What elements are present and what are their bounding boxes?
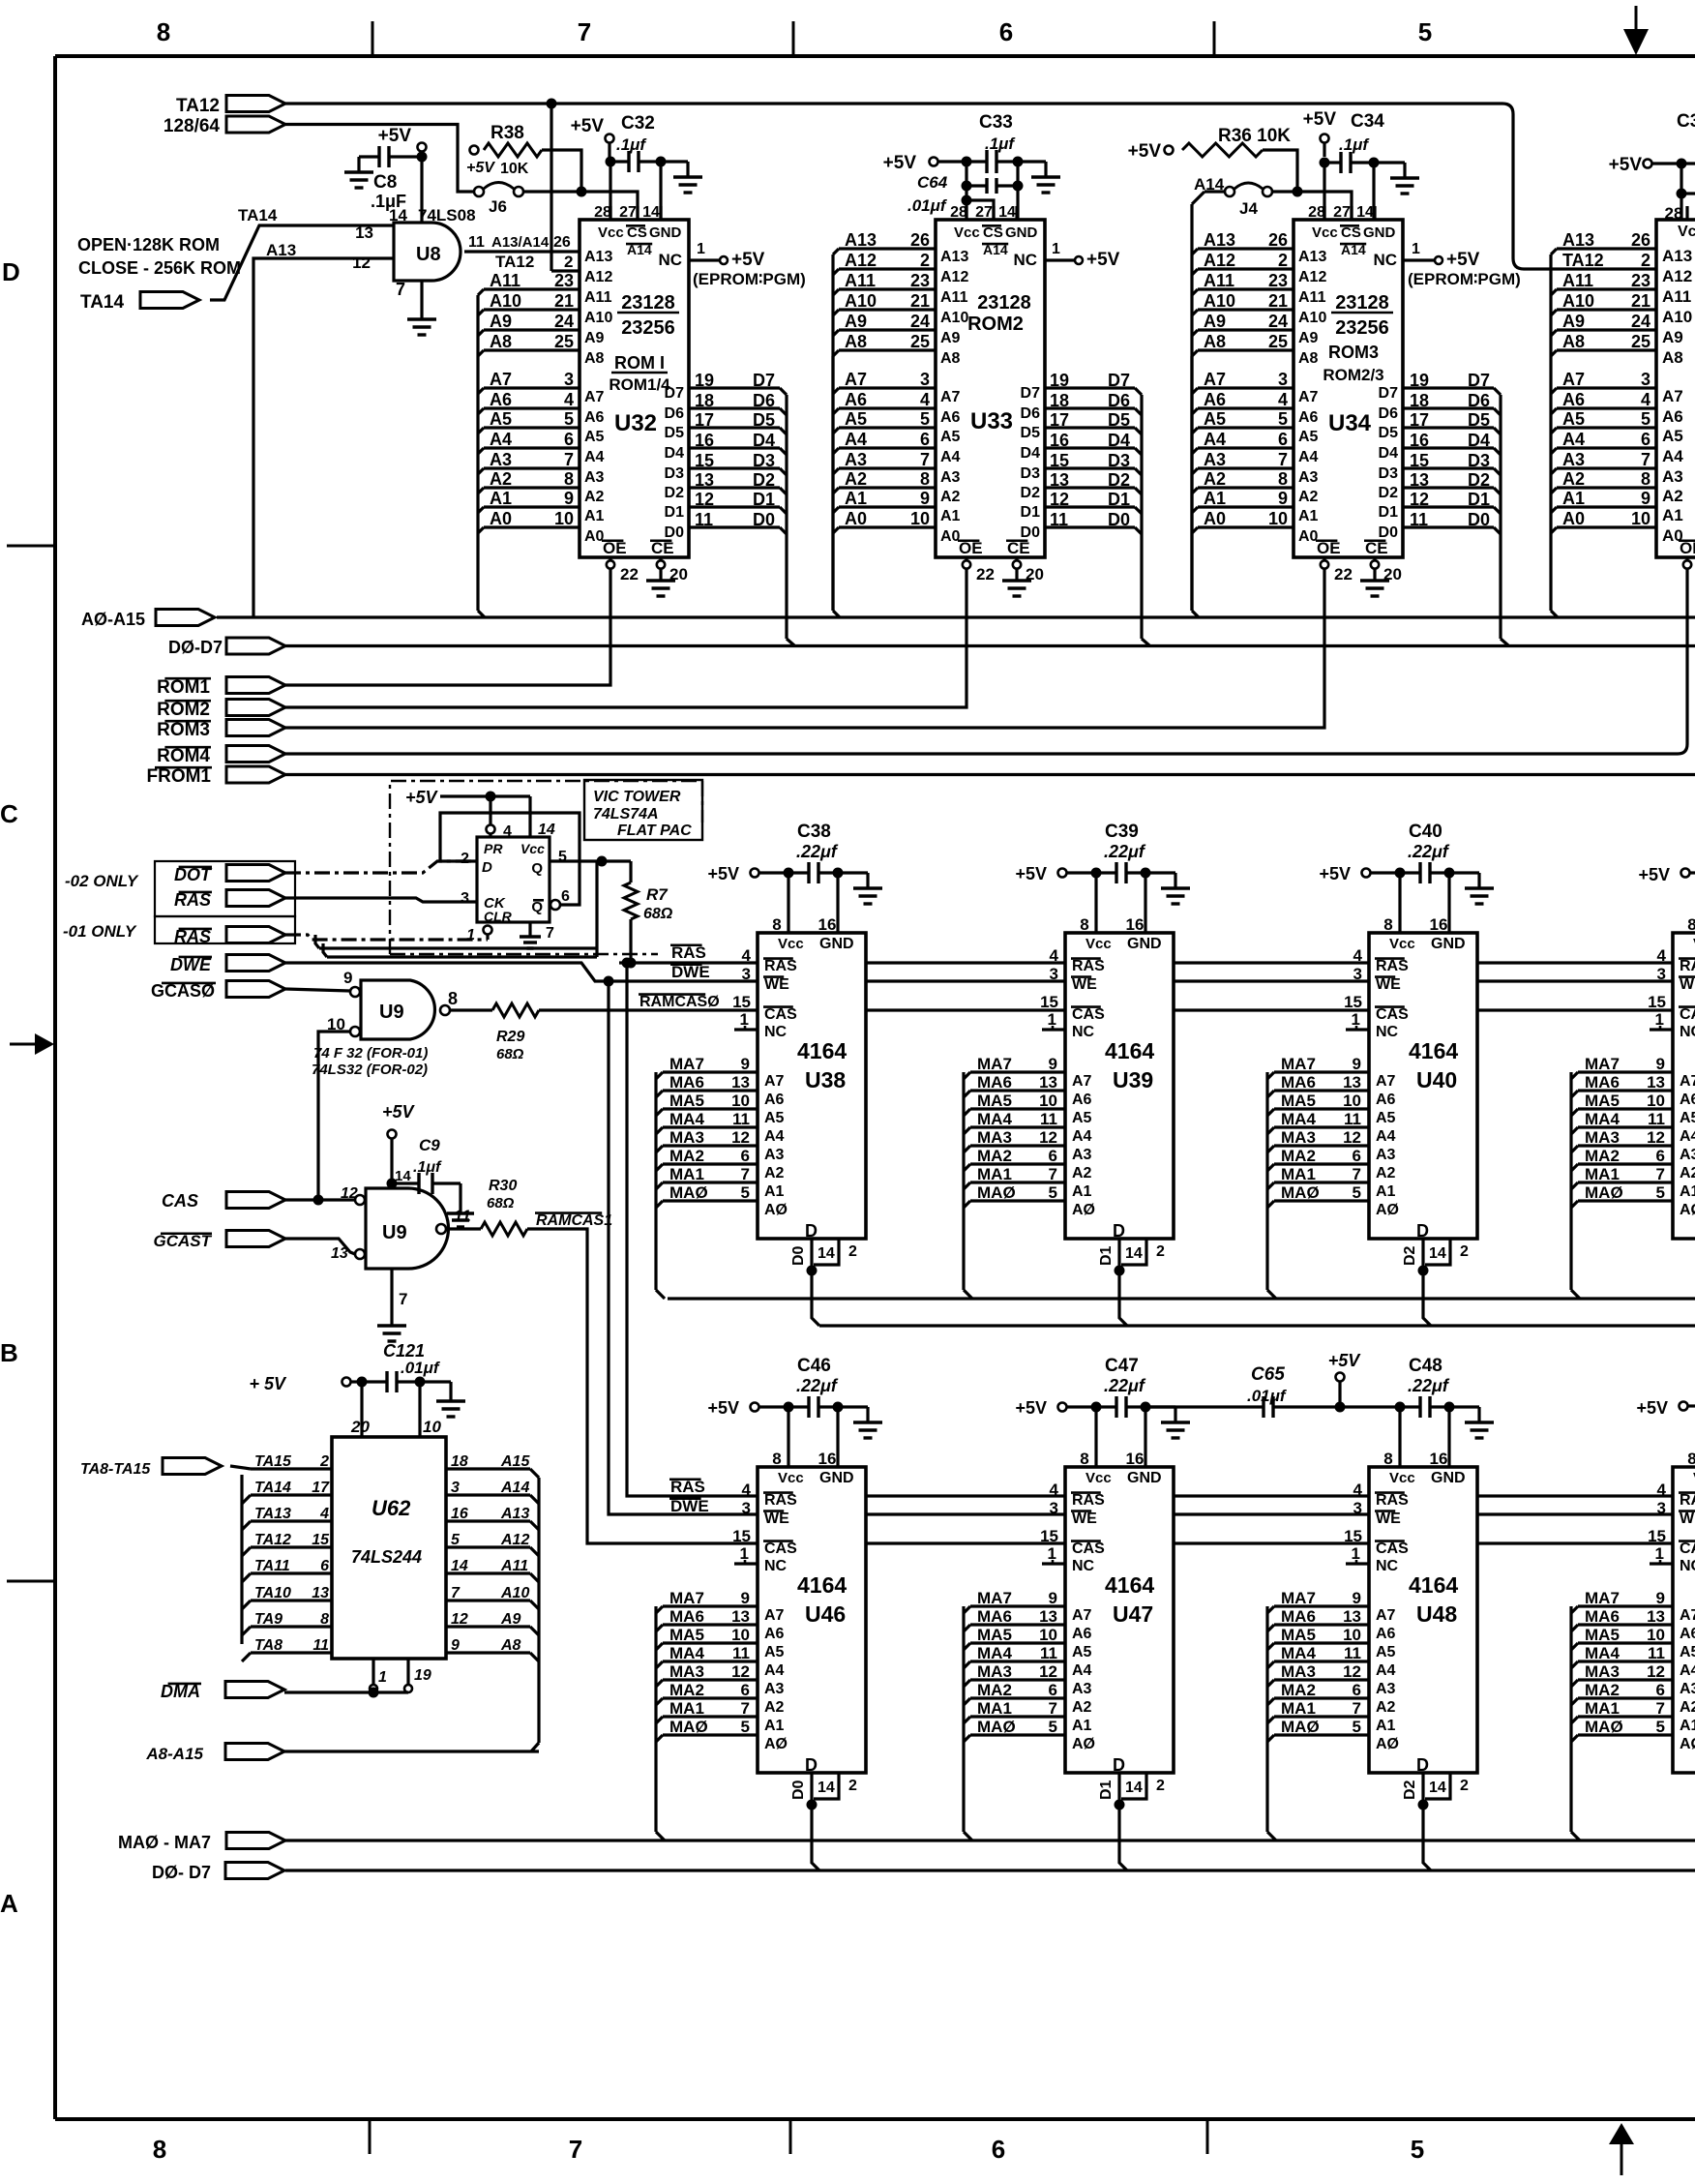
bus arrow A8-A15	[145, 1744, 284, 1764]
svg-text:10: 10	[423, 1418, 441, 1436]
svg-text:Vcc: Vcc	[1389, 1470, 1415, 1486]
svg-text:MAØ: MAØ	[1281, 1183, 1320, 1202]
wire bundle under flip-flop	[315, 861, 597, 957]
svg-text:GND: GND	[819, 1470, 854, 1486]
svg-text:WE: WE	[1376, 1511, 1401, 1527]
svg-text:GND: GND	[819, 936, 854, 952]
svg-text:D0: D0	[790, 1780, 807, 1800]
junction dot C8/U8 Vcc	[417, 152, 428, 163]
svg-text:23256: 23256	[1335, 317, 1389, 339]
svg-text:27: 27	[1333, 204, 1351, 221]
svg-text:D5: D5	[1108, 410, 1130, 430]
svg-text:A11: A11	[584, 289, 612, 306]
svg-text:6: 6	[564, 430, 574, 449]
svg-text:D3: D3	[1468, 451, 1490, 470]
bus arrow RAS (-01)	[174, 927, 285, 947]
wire C34 to U34 pins 28/14	[1324, 163, 1374, 220]
capacitor C32 .1uf block	[571, 113, 702, 193]
svg-text:8: 8	[1687, 1450, 1695, 1468]
svg-text:MA4: MA4	[1281, 1110, 1316, 1128]
svg-text:U48: U48	[1416, 1601, 1457, 1627]
svg-text:11: 11	[1040, 1110, 1057, 1128]
svg-text:4164: 4164	[797, 1038, 847, 1063]
U41 control pin numbers	[1648, 946, 1673, 1030]
svg-text:C48: C48	[1409, 1356, 1442, 1376]
svg-text:A0: A0	[490, 509, 512, 528]
svg-text:A7: A7	[1376, 1073, 1396, 1090]
svg-text:CAS: CAS	[764, 1541, 797, 1557]
svg-text:D2: D2	[753, 470, 775, 490]
svg-text:D: D	[1416, 1755, 1429, 1775]
wire TA12 to U35 pin2 (corner route)	[1502, 104, 1524, 269]
bus arrow FROM1	[147, 766, 286, 787]
svg-text:MA5: MA5	[1585, 1092, 1620, 1110]
svg-text:7: 7	[546, 925, 554, 942]
svg-text:A4: A4	[1662, 447, 1683, 465]
svg-text:A6: A6	[1680, 1626, 1695, 1642]
svg-text:24: 24	[1631, 312, 1650, 331]
svg-text:12: 12	[1410, 490, 1429, 509]
svg-text:13: 13	[1039, 1073, 1057, 1092]
svg-text:15: 15	[312, 1532, 330, 1548]
svg-text:A9: A9	[1662, 328, 1683, 346]
svg-text:5: 5	[1418, 17, 1432, 46]
U48 control pin numbers	[1344, 1481, 1369, 1564]
capacitor C38 .22uf for U38	[707, 822, 882, 919]
svg-text:OPEN·128K ROM: OPEN·128K ROM	[77, 235, 220, 254]
svg-text:A6: A6	[1072, 1626, 1092, 1642]
wire A8-A15 to U62 staircase	[284, 1750, 539, 1752]
svg-text:A8: A8	[1562, 332, 1585, 351]
svg-text:4164: 4164	[1409, 1038, 1458, 1063]
wire D bus row 1	[819, 1324, 1695, 1327]
U34 address staircase A13-A8	[1192, 230, 1294, 617]
svg-text:C121: C121	[383, 1341, 425, 1361]
svg-text:MA7: MA7	[977, 1055, 1012, 1073]
svg-text:MA1: MA1	[1585, 1699, 1620, 1718]
svg-text:MA3: MA3	[1585, 1662, 1620, 1681]
svg-text:MA6: MA6	[977, 1073, 1012, 1092]
svg-text:U47: U47	[1113, 1601, 1153, 1627]
U41 MA address staircase	[1571, 1055, 1673, 1299]
svg-text:-01 ONLY: -01 ONLY	[63, 922, 137, 941]
svg-text:7: 7	[1049, 1165, 1057, 1183]
svg-text:A2: A2	[1680, 1165, 1695, 1182]
svg-text:D6: D6	[1468, 391, 1490, 410]
DRAM U46 4164	[758, 1450, 866, 1775]
svg-text:A1: A1	[1072, 1183, 1092, 1200]
svg-text:6: 6	[920, 430, 930, 449]
svg-text:15: 15	[732, 993, 751, 1011]
svg-text:D7: D7	[1379, 385, 1399, 402]
svg-text:RAMCAS1: RAMCAS1	[536, 1212, 612, 1229]
svg-text:12: 12	[1343, 1128, 1361, 1147]
svg-text:A6: A6	[1376, 1092, 1396, 1108]
svg-text:CLR: CLR	[484, 909, 513, 924]
svg-text:CAS: CAS	[1072, 1541, 1105, 1557]
svg-text:8: 8	[1641, 469, 1650, 489]
svg-text:ROM1/4: ROM1/4	[609, 375, 670, 394]
svg-text:A3: A3	[1072, 1681, 1092, 1697]
svg-text:A8: A8	[500, 1637, 521, 1654]
svg-text:A12: A12	[500, 1532, 529, 1548]
svg-text:A5: A5	[1204, 409, 1226, 429]
svg-text:8: 8	[1383, 915, 1392, 934]
capacitor C33 .1uf / C64 .01uf block	[883, 112, 1060, 220]
svg-text:17: 17	[1410, 410, 1429, 430]
svg-text:2: 2	[1460, 1243, 1469, 1260]
wire ROM2 to U33 OE	[285, 569, 966, 707]
svg-text:A9: A9	[1562, 312, 1585, 331]
svg-text:RAS: RAS	[1376, 1492, 1409, 1509]
resistor R29 68ohm	[450, 1003, 539, 1062]
svg-text:14: 14	[395, 1168, 411, 1184]
svg-text:D1: D1	[1098, 1780, 1115, 1800]
svg-text:12: 12	[1039, 1128, 1057, 1147]
svg-text:8: 8	[153, 2135, 166, 2164]
svg-text:4164: 4164	[797, 1572, 847, 1598]
svg-text:23: 23	[1631, 271, 1650, 290]
svg-text:5: 5	[741, 1183, 750, 1202]
svg-text:A5: A5	[1562, 409, 1585, 429]
svg-text:MA5: MA5	[1281, 1626, 1316, 1644]
U34 data staircase D7-D0	[1404, 371, 1508, 645]
svg-text:MAØ: MAØ	[669, 1183, 708, 1202]
svg-text:A2: A2	[490, 469, 512, 489]
svg-text:A10: A10	[584, 310, 612, 326]
svg-text:16: 16	[818, 915, 837, 934]
svg-text:TA12: TA12	[1562, 251, 1604, 270]
svg-text:3: 3	[564, 370, 574, 389]
svg-text:+5V: +5V	[1303, 109, 1337, 130]
svg-text:68Ω: 68Ω	[496, 1046, 524, 1062]
svg-text:MA6: MA6	[1585, 1073, 1620, 1092]
svg-text:A5: A5	[1376, 1644, 1396, 1660]
svg-text:A6: A6	[490, 390, 512, 409]
svg-text:D6: D6	[753, 391, 775, 410]
U34 address staircase A7-A0	[1192, 370, 1294, 533]
svg-text:NC: NC	[764, 1558, 788, 1574]
svg-text:23128: 23128	[621, 292, 675, 314]
svg-text:A3: A3	[764, 1147, 785, 1163]
svg-text:8: 8	[920, 469, 930, 489]
svg-text:A9: A9	[500, 1611, 521, 1628]
svg-text:6: 6	[741, 1681, 750, 1699]
svg-text:15: 15	[1040, 993, 1058, 1011]
svg-text:RAS: RAS	[1072, 958, 1105, 974]
svg-text:+5V: +5V	[1328, 1351, 1362, 1370]
svg-text:15: 15	[1050, 451, 1069, 470]
svg-text:21: 21	[910, 291, 930, 311]
svg-text:D7: D7	[753, 371, 775, 390]
bus arrow D0-D7	[168, 638, 285, 657]
bus arrow ROM3	[157, 720, 285, 741]
svg-text:A6: A6	[764, 1092, 785, 1108]
bus arrow MA0-MA7	[118, 1833, 285, 1853]
svg-text:MA4: MA4	[977, 1644, 1012, 1662]
svg-text:D: D	[482, 859, 492, 876]
svg-text:14: 14	[1429, 1245, 1446, 1262]
svg-text:MA5: MA5	[669, 1626, 704, 1644]
capacitor C8 .1uF	[344, 146, 417, 211]
flip-flop Q-bar feedback wire	[440, 813, 580, 905]
svg-text:VIC TOWER: VIC TOWER	[593, 789, 681, 805]
flip-flop U-tower 74LS74A	[461, 822, 570, 943]
svg-text:23: 23	[910, 271, 930, 290]
svg-text:A0: A0	[845, 509, 867, 528]
svg-text:D1: D1	[1021, 504, 1041, 521]
wire ROM3 to U34 OE	[285, 569, 1324, 728]
svg-text:MA2: MA2	[1281, 1681, 1316, 1699]
svg-text:A2: A2	[940, 489, 961, 505]
svg-text:23128: 23128	[1335, 292, 1389, 314]
bus arrow TA12	[176, 96, 285, 117]
svg-text:11: 11	[468, 234, 485, 251]
svg-text:A3: A3	[1376, 1147, 1396, 1163]
DRAM U48 4164	[1369, 1450, 1477, 1775]
svg-text:NC: NC	[1680, 1024, 1695, 1040]
svg-text:6: 6	[1656, 1147, 1665, 1165]
svg-text:A4: A4	[490, 430, 512, 449]
svg-text:U39: U39	[1113, 1067, 1153, 1092]
svg-text:MA4: MA4	[669, 1110, 704, 1128]
svg-text:A15: A15	[500, 1453, 530, 1470]
svg-text:A13: A13	[1298, 249, 1326, 265]
U38 MA address staircase	[656, 1055, 758, 1299]
svg-text:A3: A3	[940, 469, 961, 486]
svg-text:2: 2	[1278, 251, 1288, 270]
svg-text:A2: A2	[1562, 469, 1585, 489]
svg-text:5: 5	[1353, 1718, 1361, 1736]
svg-text:5: 5	[1656, 1718, 1665, 1736]
svg-text:28: 28	[1308, 204, 1325, 221]
svg-text:CAS: CAS	[1376, 1541, 1409, 1557]
resistor R38 10K	[466, 123, 581, 187]
svg-text:MA2: MA2	[977, 1147, 1012, 1165]
svg-text:D5: D5	[753, 410, 775, 430]
svg-text:7: 7	[1656, 1165, 1665, 1183]
svg-text:9: 9	[1353, 1055, 1361, 1073]
svg-text:5: 5	[1049, 1718, 1057, 1736]
U62 bottom pins 1/19	[370, 1659, 431, 1692]
bus arrow CAS	[162, 1191, 285, 1211]
svg-text:A7: A7	[1072, 1073, 1092, 1090]
svg-text:8: 8	[448, 989, 458, 1008]
svg-text:20: 20	[350, 1418, 370, 1436]
svg-text:.01μf: .01μf	[401, 1359, 441, 1377]
svg-text:6: 6	[1049, 1147, 1057, 1165]
svg-text:MAØ: MAØ	[1281, 1718, 1320, 1736]
svg-text:R7: R7	[646, 885, 669, 904]
svg-text:MA1: MA1	[1281, 1699, 1316, 1718]
svg-text:AØ: AØ	[1072, 1202, 1095, 1218]
svg-text:74 F 32 (FOR-01): 74 F 32 (FOR-01)	[313, 1045, 428, 1062]
svg-text:A: A	[0, 1889, 18, 1918]
bus arrow GCAST	[154, 1231, 286, 1251]
svg-text:MA1: MA1	[669, 1699, 704, 1718]
svg-text:9: 9	[1353, 1589, 1361, 1607]
svg-text:D5: D5	[665, 425, 685, 441]
svg-text:D6: D6	[1108, 391, 1130, 410]
wire GCAST to U9b pin 13	[285, 1239, 355, 1254]
svg-text:128/64: 128/64	[164, 116, 221, 136]
svg-text:A3: A3	[1298, 469, 1319, 486]
wire GCAS0 to U9a pin 9	[285, 989, 350, 991]
svg-text:D4: D4	[1108, 431, 1130, 450]
svg-text:TA15: TA15	[254, 1453, 292, 1470]
svg-text:13: 13	[1050, 470, 1069, 490]
svg-text:+5V: +5V	[707, 1398, 739, 1418]
svg-text:A13: A13	[1662, 247, 1692, 265]
svg-text:A8: A8	[584, 350, 605, 367]
svg-text:Vcc: Vcc	[1678, 224, 1695, 240]
svg-text:D3: D3	[1108, 451, 1130, 470]
svg-text:A1: A1	[1204, 489, 1226, 508]
wire J6 to U32 CS pin 27	[523, 192, 638, 220]
svg-text:A0: A0	[1298, 528, 1319, 545]
U47 MA address staircase	[964, 1589, 1065, 1840]
svg-text:MAØ: MAØ	[669, 1718, 708, 1736]
svg-text:13: 13	[695, 470, 714, 490]
svg-text:74LS74A: 74LS74A	[593, 806, 659, 823]
svg-text:MA5: MA5	[977, 1092, 1012, 1110]
svg-text:FROM1: FROM1	[147, 766, 212, 787]
junction dot R7 bottom	[626, 958, 637, 969]
svg-text:19: 19	[1050, 371, 1069, 390]
svg-text:.1μf: .1μf	[985, 135, 1016, 153]
svg-text:A7: A7	[490, 370, 512, 389]
svg-text:A6: A6	[1072, 1092, 1092, 1108]
svg-text:.22μf: .22μf	[1408, 1376, 1450, 1395]
svg-text:A12: A12	[1662, 267, 1692, 285]
wire RAS to row 2	[627, 963, 758, 1496]
svg-text:17: 17	[312, 1480, 330, 1496]
svg-text:21: 21	[1631, 291, 1650, 311]
svg-text:A10: A10	[1562, 291, 1594, 311]
svg-text:CAS: CAS	[1072, 1006, 1105, 1023]
svg-text:14: 14	[818, 1780, 835, 1796]
svg-text:A11: A11	[1204, 271, 1234, 290]
svg-text:.22μf: .22μf	[796, 1376, 839, 1395]
wire RAS(-01) dash-dot	[285, 935, 488, 940]
svg-text:Vcc: Vcc	[1085, 936, 1112, 952]
svg-text:9: 9	[741, 1055, 750, 1073]
svg-text:MA3: MA3	[1585, 1128, 1620, 1147]
svg-text:14: 14	[1429, 1780, 1446, 1796]
svg-text:26: 26	[910, 230, 930, 250]
svg-text:10: 10	[1268, 509, 1288, 528]
svg-text:A4: A4	[1562, 430, 1585, 449]
resistor R7 68ohm	[624, 861, 673, 964]
svg-text:A5: A5	[1680, 1644, 1695, 1660]
svg-text:WE: WE	[1072, 1511, 1097, 1527]
svg-text:16: 16	[451, 1506, 468, 1522]
svg-text:8: 8	[1080, 915, 1088, 934]
svg-text:9: 9	[1641, 489, 1650, 508]
svg-text:15: 15	[1648, 993, 1666, 1011]
svg-text:9: 9	[1656, 1589, 1665, 1607]
svg-text:MA3: MA3	[977, 1128, 1012, 1147]
svg-text:10: 10	[1343, 1092, 1361, 1110]
svg-text:A10: A10	[1298, 310, 1326, 326]
svg-text:GND: GND	[1431, 936, 1466, 952]
svg-text:19: 19	[695, 371, 714, 390]
svg-text:A8: A8	[1662, 348, 1683, 367]
svg-text:D2: D2	[1402, 1780, 1418, 1800]
DRAM U41 4164	[1673, 915, 1695, 1241]
svg-text:A14: A14	[1194, 175, 1225, 194]
svg-text:ROM3: ROM3	[1328, 343, 1379, 362]
svg-text:+5V: +5V	[378, 126, 412, 146]
svg-text:8: 8	[320, 1611, 329, 1628]
signal box -01 RAS	[155, 916, 295, 943]
svg-text:1: 1	[378, 1669, 387, 1686]
wire FROM1 bus	[285, 773, 1695, 776]
wire RAMCAS0 to U38 CAS	[539, 994, 758, 1010]
svg-text:A7: A7	[845, 370, 867, 389]
svg-text:GND: GND	[1127, 936, 1162, 952]
svg-text:7: 7	[578, 17, 591, 46]
svg-text:A2: A2	[1376, 1699, 1396, 1716]
flip-flop CLR pin circle	[484, 926, 492, 935]
svg-text:A7: A7	[1204, 370, 1226, 389]
svg-text:.22μf: .22μf	[1408, 842, 1450, 861]
U33 pin1 NC to +5V	[1013, 241, 1119, 270]
svg-text:WE: WE	[1680, 1511, 1695, 1527]
svg-text:GND: GND	[1127, 1470, 1162, 1486]
svg-text:TA13: TA13	[254, 1506, 291, 1522]
svg-text:A1: A1	[1072, 1718, 1092, 1734]
svg-text:A1: A1	[1562, 489, 1585, 508]
flip-flop Q-bar output bubble	[550, 900, 560, 910]
U32 pin13/A13 row from U8 output, label A13/A14 26	[464, 234, 580, 252]
svg-text:+5V: +5V	[707, 864, 739, 883]
svg-text:9: 9	[1278, 489, 1288, 508]
svg-text:A7: A7	[1298, 389, 1319, 405]
svg-text:TA14: TA14	[80, 292, 124, 313]
svg-text:25: 25	[1631, 332, 1650, 351]
svg-text:PR: PR	[484, 841, 503, 856]
svg-text:10: 10	[1647, 1092, 1665, 1110]
U39 MA address staircase	[964, 1055, 1065, 1299]
svg-text:TA8: TA8	[254, 1637, 282, 1654]
svg-text:74LS244: 74LS244	[351, 1547, 422, 1567]
svg-text:MAØ: MAØ	[1585, 1718, 1623, 1736]
svg-text:A9: A9	[1204, 312, 1226, 331]
svg-text:A3: A3	[1376, 1681, 1396, 1697]
svg-text:68Ω: 68Ω	[487, 1195, 515, 1212]
svg-text:25: 25	[554, 332, 574, 351]
svg-text:MA3: MA3	[669, 1128, 704, 1147]
svg-text:13: 13	[1039, 1607, 1057, 1626]
svg-text:7: 7	[1278, 450, 1288, 469]
svg-text:12: 12	[352, 254, 371, 272]
svg-text:1: 1	[697, 241, 705, 257]
svg-text:+5V: +5V	[1638, 865, 1670, 884]
svg-text:A6: A6	[1204, 390, 1226, 409]
svg-text:11: 11	[454, 1207, 471, 1225]
svg-text:CAS: CAS	[1680, 1541, 1695, 1557]
wire RAS row to U38 RAS	[619, 943, 758, 963]
svg-text:18: 18	[1050, 391, 1069, 410]
svg-text:AØ: AØ	[764, 1202, 788, 1218]
svg-text:A2: A2	[1204, 469, 1226, 489]
svg-text:A7: A7	[764, 1073, 785, 1090]
wire MA bus row 1	[668, 1297, 1695, 1300]
top margin arrow (down)	[1623, 6, 1649, 55]
wire RAS(-02) to flip-flop CK	[285, 898, 477, 902]
svg-text:12: 12	[695, 490, 714, 509]
